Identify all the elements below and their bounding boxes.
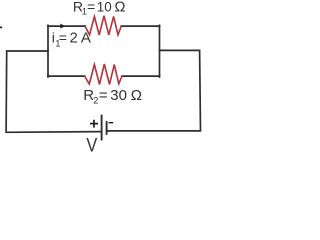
svg-text:Ω: Ω (115, 0, 126, 16)
svg-text:30: 30 (110, 87, 127, 104)
svg-text:=: = (59, 30, 67, 46)
svg-text:2: 2 (93, 96, 98, 107)
svg-text:=: = (99, 87, 108, 104)
svg-text:Ω: Ω (131, 87, 142, 104)
svg-text:2: 2 (70, 31, 78, 47)
svg-text:=: = (87, 0, 95, 15)
svg-text:10: 10 (97, 0, 112, 15)
svg-text:V: V (86, 135, 97, 156)
svg-text:A: A (81, 30, 91, 47)
